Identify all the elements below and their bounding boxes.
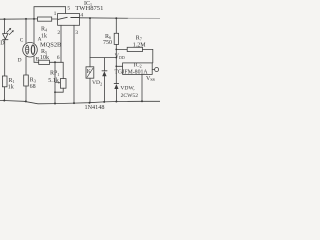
svg-text:R1: R1	[9, 78, 15, 84]
text labels	[0, 1, 154, 111]
svg-text:VDD: VDD	[115, 54, 125, 60]
svg-text:1k: 1k	[8, 85, 14, 91]
svg-text:5: 5	[67, 6, 70, 12]
gas sensor B (MQS2B) circle	[23, 42, 38, 57]
wire loop to pin 5	[34, 7, 66, 19]
LED D	[3, 34, 8, 40]
junction dots	[3, 17, 143, 104]
svg-text:6: 6	[57, 55, 60, 61]
diode VD2 1N4148	[103, 58, 105, 71]
wire R7 to IC2 top	[143, 49, 153, 63]
svg-text:B: B	[36, 56, 40, 62]
wire to IC2 VDD pin	[116, 65, 122, 67]
svg-text:3: 3	[75, 30, 78, 36]
svg-text:1.2M: 1.2M	[133, 42, 147, 48]
wire sensor lead D	[25, 57, 27, 75]
svg-text:5.1k: 5.1k	[48, 78, 59, 84]
resistor R5	[39, 60, 50, 64]
zener VDW 2CW52	[115, 66, 117, 83]
svg-text:1k: 1k	[41, 34, 47, 40]
wire top-left supply rail	[0, 18, 38, 20]
svg-text:D: D	[0, 41, 5, 47]
resistor R1	[2, 76, 7, 87]
svg-text:2: 2	[57, 30, 60, 36]
wire to R7	[116, 48, 127, 50]
resistor R7	[127, 47, 142, 51]
resistor R2	[24, 75, 29, 86]
svg-text:VDW,: VDW,	[120, 85, 135, 91]
wire LED to R1	[4, 40, 6, 76]
IC U1: IC1 TWH8751 box	[58, 14, 80, 26]
wire pin2	[60, 25, 62, 62]
svg-text:VD2: VD2	[92, 80, 102, 86]
svg-text:TWH8751: TWH8751	[75, 5, 103, 12]
svg-text:1: 1	[54, 11, 57, 17]
svg-text:D: D	[18, 57, 22, 63]
svg-text:4: 4	[80, 12, 83, 18]
svg-text:2CW52: 2CW52	[121, 93, 139, 99]
potentiometer RP1	[62, 62, 64, 78]
svg-text:R7: R7	[136, 35, 142, 41]
svg-text:IC2: IC2	[134, 63, 142, 69]
wire LED column top	[4, 19, 6, 33]
wire relay-diode horizontal	[90, 57, 116, 59]
svg-text:750: 750	[103, 40, 112, 46]
wire R5 to pin2 node	[50, 61, 64, 63]
svg-text:RP1: RP1	[50, 71, 59, 77]
svg-text:MQS2B: MQS2B	[40, 41, 61, 48]
wire pot column down	[54, 62, 56, 103]
wire sensor lead C	[25, 19, 27, 43]
svg-text:R3: R3	[30, 78, 36, 84]
svg-text:VSS: VSS	[146, 76, 155, 82]
wire R6 column	[115, 18, 117, 33]
switch symbol inside IC1	[58, 17, 79, 19]
wire sensor lead A	[33, 19, 35, 43]
wire pin3	[73, 25, 75, 103]
svg-text:10k: 10k	[40, 55, 49, 61]
svg-text:R4: R4	[41, 27, 47, 33]
resistor R4	[38, 17, 52, 21]
wire VSS	[141, 74, 143, 101]
wire R1 to ground rail	[4, 87, 6, 101]
wire pin4 output rail	[80, 17, 129, 19]
svg-text:C: C	[20, 38, 24, 44]
wire R4 to pin1	[52, 18, 58, 20]
wire R2 to ground	[25, 86, 27, 101]
output terminal	[152, 69, 154, 71]
svg-text:TGJFM-801A: TGJFM-801A	[114, 70, 148, 76]
resistor R6	[114, 33, 118, 44]
svg-text:1N4148: 1N4148	[85, 104, 105, 110]
IC2 box TGJFM-801A	[123, 63, 153, 75]
wire sensor lead B to R5	[34, 57, 39, 63]
relay K	[86, 67, 94, 78]
wire relay column	[89, 18, 91, 58]
svg-text:68: 68	[30, 84, 36, 90]
ground rail	[0, 100, 160, 103]
